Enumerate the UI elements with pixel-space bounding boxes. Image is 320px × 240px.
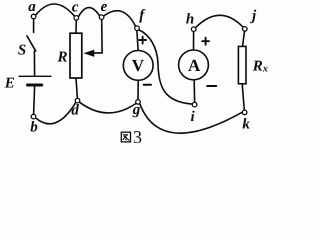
wire arc g-k (140, 104, 243, 133)
wire h to ammeter (193, 32, 195, 51)
node d (75, 98, 80, 103)
svg-text:S: S (18, 43, 26, 59)
wire arc e-f (104, 11, 136, 27)
svg-text:g: g (132, 102, 141, 118)
battery E long plate (19, 75, 51, 77)
wire f to voltmeter (137, 31, 138, 51)
svg-text:d: d (71, 103, 79, 119)
node j (243, 27, 248, 32)
wire c to rheostat top (75, 20, 77, 33)
wire resistor Rx to node k (242, 84, 244, 110)
node c (74, 16, 79, 21)
wire battery to node b (34, 87, 35, 115)
voltmeter U1 circle (123, 51, 153, 81)
wire arc b-d (36, 103, 76, 124)
node e (99, 15, 104, 20)
node f (135, 26, 140, 31)
ammeter U2 circle (179, 50, 209, 80)
svg-text:A: A (188, 56, 201, 75)
wire ammeter to node i (193, 80, 195, 102)
svg-text:k: k (242, 117, 250, 133)
svg-text:e: e (101, 0, 108, 15)
node a (31, 14, 36, 19)
svg-text:h: h (186, 11, 194, 27)
svg-text:E: E (4, 76, 15, 92)
caption figure 3 character tu (121, 132, 130, 142)
svg-text:c: c (72, 0, 79, 15)
voltmeter minus sign (144, 84, 151, 86)
switch S blade (27, 36, 36, 51)
wire a to switch (33, 19, 35, 33)
wire arc d-g (80, 102, 136, 113)
svg-text:R: R (57, 49, 68, 65)
wire switch to battery (33, 51, 35, 76)
wire voltmeter to node g (137, 80, 139, 99)
wire f to node i (139, 30, 193, 104)
wire arc h-j (196, 15, 243, 27)
wire arc c-e (79, 8, 100, 17)
node b (31, 114, 36, 119)
rheostat slider wire from e (94, 20, 103, 53)
voltmeter plus sign (139, 37, 146, 44)
node g (136, 100, 141, 105)
svg-text:b: b (30, 120, 38, 136)
node k (242, 110, 247, 115)
ammeter minus sign (207, 85, 216, 87)
svg-text:j: j (250, 8, 257, 24)
node h (191, 27, 196, 32)
wire rheostat to node d (76, 78, 77, 98)
rheostat R body (70, 33, 82, 78)
svg-text:V: V (132, 56, 145, 75)
resistor Rx body (238, 46, 246, 83)
wire arc a-c (36, 4, 74, 16)
node i (192, 102, 197, 107)
svg-text:3: 3 (133, 127, 142, 147)
battery E short plate (28, 84, 42, 87)
rheostat slider arrowhead (85, 50, 94, 56)
wire j to resistor Rx (243, 31, 245, 46)
ammeter plus sign (202, 38, 209, 45)
svg-text:a: a (28, 0, 36, 15)
